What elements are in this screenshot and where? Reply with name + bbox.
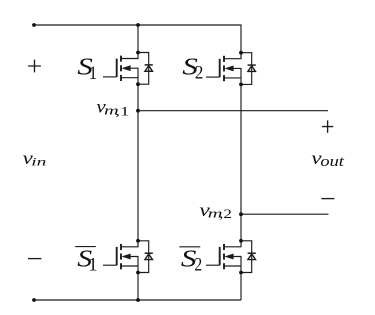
- svg-text:2: 2: [194, 254, 202, 275]
- svg-text:1: 1: [88, 256, 97, 276]
- svg-text:in: in: [31, 155, 46, 169]
- svg-text:,1: ,1: [115, 104, 129, 118]
- svg-text:1: 1: [89, 64, 97, 84]
- svg-text:2: 2: [195, 62, 203, 83]
- svg-text:,2: ,2: [219, 207, 232, 221]
- svg-text:out: out: [320, 154, 345, 170]
